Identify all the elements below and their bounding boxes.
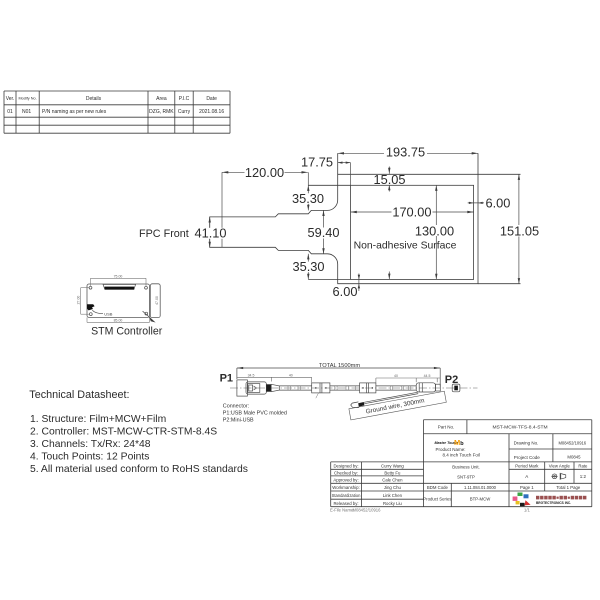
left dim [80,288,82,315]
foil edge extensions right [478,173,521,175]
TITLE-BLOCK [330,420,592,513]
svg-text:1:2: 1:2 [580,474,587,479]
svg-text:Product Name:: Product Name: [436,447,466,452]
svg-text:1. Structure: Film+MCW+Film: 1. Structure: Film+MCW+Film [30,414,166,425]
DIM-151.05 [499,174,540,283]
svg-text:151.05: 151.05 [500,223,539,238]
svg-text:P/N naming as per new rules: P/N naming as per new rules [42,109,107,115]
svg-text:Drawing No.: Drawing No. [514,441,539,446]
svg-text:M08452/10916: M08452/10916 [558,441,586,446]
svg-text:M08452/10916: M08452/10916 [353,507,382,512]
svg-text:41.10: 41.10 [194,225,226,240]
svg-text:N01: N01 [22,109,31,115]
svg-text:75.00: 75.00 [114,274,123,278]
svg-text:Approved by:: Approved by: [333,477,358,482]
STM-CONTROLLER [76,274,162,337]
DIM-59.40 [307,210,339,253]
usb leader [92,310,103,314]
top dim [91,277,147,279]
total dim [237,367,440,369]
svg-text:2021.08.16: 2021.08.16 [199,109,224,115]
svg-text:Business Unit.: Business Unit. [452,464,479,469]
svg-text:Betty Fu: Betty Fu [384,470,401,475]
inner active area rect [351,185,474,279]
FPC-OUTLINE [210,153,521,283]
DIM-120.00 [222,165,308,247]
ground wire callout box [349,391,446,420]
svg-text:59.40: 59.40 [307,225,339,240]
svg-text:01: 01 [7,109,13,115]
top connector bar [103,284,136,289]
CABLE-ASSEMBLY [220,363,478,420]
svg-text:Ver.: Ver. [6,96,15,102]
DIM-6.00-bottom [333,272,391,300]
svg-text:Period Mark: Period Mark [515,463,539,468]
svg-text:Details: Details [86,96,102,102]
svg-text:Product Series: Product Series [423,497,451,502]
svg-text:SNT-9TP: SNT-9TP [457,475,475,480]
svg-text:STM Controller: STM Controller [91,326,163,338]
svg-text:Curry: Curry [178,109,191,115]
cable ticks [288,386,411,390]
ferrite 2 [360,383,376,393]
ground wire [364,392,418,402]
centerline [230,387,478,389]
svg-text:35.30: 35.30 [292,191,324,206]
svg-text:Total 1 Page: Total 1 Page [556,485,580,490]
DIM-15.05 [373,167,405,192]
svg-text:1.11.084.01.0000: 1.11.084.01.0000 [464,485,497,490]
svg-text:DZG, RMK: DZG, RMK [149,109,174,115]
company logo [513,493,531,507]
ferrite 1 [312,383,330,393]
extensions up for 193.75 [337,153,339,174]
svg-text:27.00: 27.00 [76,296,80,305]
svg-text:120.00: 120.00 [245,165,284,180]
svg-text:BDM Code: BDM Code [427,485,449,490]
DIM-35.30-bottom [292,254,324,280]
svg-text:85.00: 85.00 [114,318,123,322]
svg-text:USB: USB [104,312,113,317]
svg-text:Rate: Rate [578,463,588,468]
svg-text:MST-MCW-TFS-8.4-STM: MST-MCW-TFS-8.4-STM [492,424,547,430]
svg-text:3. Channels: Tx/Rx: 24*48: 3. Channels: Tx/Rx: 24*48 [30,439,151,450]
svg-text:15.05: 15.05 [373,172,405,187]
svg-text:Non-adhesive Surface: Non-adhesive Surface [354,240,457,251]
svg-text:M0845: M0845 [567,455,581,460]
svg-text:Area: Area [156,96,167,102]
svg-text:Link Chen: Link Chen [383,493,403,498]
svg-text:Released by:: Released by: [333,501,358,506]
DIM-130.00 [414,185,455,279]
svg-text:Modify No.: Modify No. [19,96,37,100]
svg-text:FPC Front: FPC Front [139,228,189,240]
frame lines [424,419,592,421]
svg-text:P2:Mini-USB: P2:Mini-USB [223,418,254,424]
svg-text:P1: P1 [220,372,233,384]
svg-text:Technical Datasheet:: Technical Datasheet: [29,389,129,401]
svg-text:6.00: 6.00 [333,284,358,299]
svg-text:View Angle: View Angle [549,463,571,468]
svg-text:Workmanship:: Workmanship: [332,485,359,490]
svg-text:Connector:: Connector: [223,404,249,410]
svg-text:17.75: 17.75 [301,154,333,169]
DIM-41.10 [194,217,226,247]
DATASHEET-TEXT [29,389,248,475]
view angle symbol [551,473,565,480]
inner edge extensions left [308,184,350,186]
svg-text:1/1: 1/1 [524,507,530,512]
svg-text:Project Code: Project Code [514,455,541,460]
DIM-17.75 [301,154,351,185]
P2 mini-usb front symbol [452,384,460,392]
svg-text:170.00: 170.00 [392,204,431,219]
svg-text:193.75: 193.75 [386,145,425,160]
cable lines [279,385,311,387]
DIM-6.00-right [468,196,511,211]
svg-text:P.I.C: P.I.C [179,96,190,102]
svg-text:Rocky Liu: Rocky Liu [383,501,402,506]
svg-text:40: 40 [289,373,293,377]
svg-text:BRGTECTRONICS INC.: BRGTECTRONICS INC. [536,501,571,505]
svg-text:35.30: 35.30 [292,259,324,274]
svg-text:E-File Name:: E-File Name: [330,507,354,512]
sub dims left [237,376,312,378]
svg-text:Checked by:: Checked by: [334,470,358,475]
svg-text:BTP-MCW: BTP-MCW [470,497,491,502]
svg-text:8.4 inch Touch Foil: 8.4 inch Touch Foil [442,452,479,457]
svg-text:5. All material used conform t: 5. All material used conform to RoHS sta… [30,464,248,475]
svg-text:Cale Chen: Cale Chen [382,477,403,482]
svg-text:Page 1: Page 1 [520,485,534,490]
svg-text:TOTAL 1500mm: TOTAL 1500mm [319,363,361,369]
side view [150,284,160,318]
svg-text:Curry Wang: Curry Wang [381,463,404,468]
DIM-193.75 [338,145,478,160]
svg-text:Designed by:: Designed by: [333,463,358,468]
svg-text:4. Touch Points: 12 Points: 4. Touch Points: 12 Points [30,452,149,463]
REVISION-TABLE [4,91,230,133]
pcb outline [87,284,150,317]
svg-text:47.00: 47.00 [155,296,159,305]
svg-text:Part No.: Part No. [438,424,455,429]
screw leader [143,311,150,317]
svg-text:A: A [525,474,528,479]
svg-text:44.5: 44.5 [424,374,431,378]
svg-text:Standardization: Standardization [332,493,361,498]
svg-text:6.00: 6.00 [486,196,511,211]
usb plug symbol [87,304,95,310]
mounting holes [89,286,92,289]
svg-text:34.5: 34.5 [248,373,255,377]
svg-text:130.00: 130.00 [415,223,454,238]
svg-text:40: 40 [394,374,398,378]
svg-text:Jing Chu: Jing Chu [384,485,402,490]
P1 usb plug [237,380,248,396]
svg-text:2. Controller: MST-MCW-CTR-STM: 2. Controller: MST-MCW-CTR-STM-8.4S [30,426,217,437]
CONNECTOR-NOTE [223,404,287,424]
sub dims right [376,377,440,379]
svg-text:P1:USB Male PVC molded: P1:USB Male PVC molded [223,411,287,417]
P2 molded connector [416,383,435,392]
bottom dim [87,321,150,323]
svg-text:Date: Date [206,96,217,102]
DIM-170.00 [351,204,474,219]
DIM-35.30-top [292,172,324,210]
